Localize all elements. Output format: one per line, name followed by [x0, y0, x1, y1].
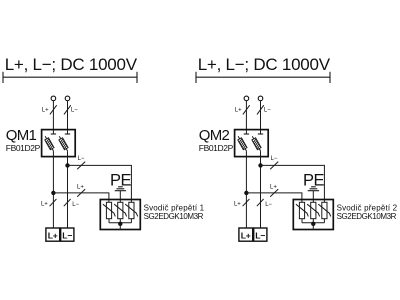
- svg-text:SG2EDGK10M3R: SG2EDGK10M3R: [144, 212, 204, 221]
- svg-text:L+: L+: [42, 108, 49, 114]
- wire L- branch to SPD FV2: [261, 165, 325, 202]
- disconnect marker on L+ branch: [270, 189, 278, 197]
- wire L- branch to SPD FV1: [68, 165, 132, 202]
- disconnect marker on L+ upper: [50, 105, 57, 114]
- junction node L- branch: [65, 163, 69, 167]
- varistor 3 of SPD2: [318, 202, 330, 223]
- disconnect marker on L- branch: [270, 162, 278, 170]
- fuse pole L+ of QM1: contact tick: [51, 133, 56, 135]
- fuse pole L+ of QM2: contact tick: [244, 133, 249, 135]
- svg-text:FB01D2P: FB01D2P: [6, 143, 41, 153]
- junction node L+ branch: [244, 191, 248, 195]
- junction node L- branch: [258, 163, 262, 167]
- svg-text:L+: L+: [77, 184, 84, 190]
- wire PE to SPD middle varistor: [312, 191, 314, 203]
- junction node SPD2 bottom: [311, 222, 315, 226]
- disconnect marker on L- lower: [257, 199, 264, 206]
- terminal block L+ circuit 1: [46, 228, 60, 241]
- svg-text:L−: L−: [71, 108, 78, 114]
- varistor 1 of SPD2: [296, 202, 308, 223]
- fuse pole L- of QM1: contact tick: [65, 133, 70, 135]
- wire L+ from QM2 to terminal block: [245, 151, 247, 228]
- svg-text:QM1: QM1: [6, 127, 37, 144]
- fuse pole L- of QM2: contact tick: [258, 133, 263, 135]
- bus line circuit 1: [3, 72, 137, 83]
- varistor 3 of SPD1: [125, 202, 137, 223]
- terminal block L- circuit 1: [61, 228, 74, 241]
- svg-text:L−: L−: [62, 231, 72, 241]
- junction node SPD1 bottom: [118, 222, 122, 226]
- disconnect marker on L+ branch: [77, 189, 85, 197]
- fuse-disconnector QM2 box: [235, 130, 269, 157]
- svg-text:SG2EDGK10M3R: SG2EDGK10M3R: [337, 212, 397, 221]
- bus line circuit 2: [196, 72, 330, 83]
- svg-text:L−: L−: [255, 231, 265, 241]
- wire L- from terminal to QM1: [67, 101, 69, 134]
- fuse pole L- of QM2: blade with fuse body: [252, 136, 261, 151]
- svg-text:L−: L−: [72, 202, 79, 208]
- terminal L+ input circuit 1: [51, 96, 56, 101]
- svg-text:L+: L+: [48, 231, 58, 241]
- wire L- from terminal to QM2: [260, 101, 262, 134]
- svg-text:L+: L+: [41, 202, 48, 208]
- svg-text:L−: L−: [265, 202, 272, 208]
- wire L- from QM1 to terminal block: [67, 151, 69, 228]
- varistor 2 of SPD2: [307, 202, 319, 223]
- terminal block L+ circuit 2: [239, 228, 253, 241]
- disconnect marker on L+ upper: [243, 105, 250, 114]
- terminal L+ input circuit 2: [244, 96, 249, 101]
- wire L+ from QM1 to terminal block: [52, 151, 54, 228]
- wire SPD1 to enclosure bottom: [119, 224, 121, 229]
- svg-text:Svodič přepětí 1: Svodič přepětí 1: [144, 203, 205, 212]
- fuse pole L- of QM1: blade with fuse body: [59, 136, 68, 151]
- junction node L+ branch: [51, 191, 55, 195]
- terminal L- input circuit 1: [65, 96, 70, 101]
- fuse pole L+ of QM2: blade with fuse body: [238, 136, 247, 151]
- svg-text:L−: L−: [264, 108, 271, 114]
- svg-text:L+, L−; DC 1000V: L+, L−; DC 1000V: [198, 55, 331, 74]
- terminal block L- circuit 2: [254, 228, 267, 241]
- svg-text:L−: L−: [78, 156, 85, 162]
- svg-text:L+, L−; DC 1000V: L+, L−; DC 1000V: [5, 55, 138, 74]
- wire SPD1 common bottom: [109, 222, 131, 224]
- disconnect marker on L- lower: [64, 199, 71, 206]
- svg-text:QM2: QM2: [199, 127, 230, 144]
- fuse-disconnector QM1 box: [42, 130, 76, 157]
- wire PE to SPD middle varistor: [119, 191, 121, 203]
- wire SPD2 to enclosure bottom: [312, 224, 314, 229]
- wire L- from QM2 to terminal block: [260, 151, 262, 228]
- svg-text:L+: L+: [270, 184, 277, 190]
- terminal L- input circuit 2: [258, 96, 263, 101]
- disconnect marker on L- upper: [257, 105, 264, 114]
- wire L+ branch to SPD FV2: [246, 193, 302, 202]
- disconnect marker on L- upper: [64, 105, 71, 114]
- svg-text:L+: L+: [241, 231, 251, 241]
- svg-text:L+: L+: [234, 202, 241, 208]
- varistor 1 of SPD1: [103, 202, 115, 223]
- svg-text:L+: L+: [235, 108, 242, 114]
- surge protection device SPD1 box: [100, 200, 140, 230]
- varistor 2 of SPD1: [114, 202, 126, 223]
- wire L+ from terminal to QM1: [52, 101, 54, 134]
- disconnect marker on L+ lower: [50, 199, 57, 206]
- earth (PE) symbol: [115, 187, 126, 191]
- fuse pole L+ of QM1: blade with fuse body: [45, 136, 54, 151]
- surge protection device SPD2 box: [293, 200, 333, 230]
- earth (PE) symbol: [308, 187, 319, 191]
- svg-text:Svodič přepětí 2: Svodič přepětí 2: [337, 203, 398, 212]
- wire SPD2 common bottom: [302, 222, 324, 224]
- wire L+ from terminal to QM2: [245, 101, 247, 134]
- svg-text:L−: L−: [271, 156, 278, 162]
- disconnect marker on L- branch: [77, 162, 85, 170]
- disconnect marker on L+ lower: [243, 199, 250, 206]
- svg-text:FB01D2P: FB01D2P: [199, 143, 234, 153]
- wire L+ branch to SPD FV1: [53, 193, 109, 202]
